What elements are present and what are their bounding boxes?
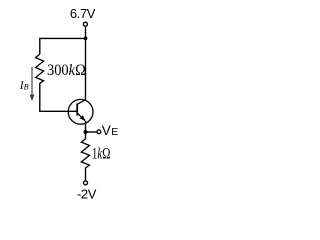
svg-text:6.7V: 6.7V	[70, 6, 96, 21]
svg-text:-2V: -2V	[77, 187, 97, 202]
svg-text:1kΩ: 1kΩ	[92, 146, 111, 163]
wire emitter vertical	[85, 121, 87, 139]
transistor collector diagonal	[77, 100, 85, 105]
svg-text:300kΩ: 300kΩ	[47, 62, 86, 79]
node junction dot top	[84, 37, 88, 41]
wire top horizontal	[40, 37, 86, 39]
wire left branch upper	[39, 38, 41, 55]
terminal -2V	[84, 181, 88, 185]
wire VE node to terminal	[86, 131, 97, 133]
transistor Q1 body circle	[68, 99, 93, 124]
resistor R1 300k zigzag	[36, 54, 44, 83]
wire terminal to top junction	[85, 27, 87, 39]
wire base lead	[39, 110, 77, 112]
svg-text:E: E	[111, 126, 118, 138]
resistor R2 1k zigzag	[81, 139, 89, 168]
wire emitter resistor to bottom terminal	[85, 168, 87, 181]
svg-text:B: B	[24, 83, 29, 92]
svg-text:V: V	[102, 123, 111, 138]
transistor Q1 base bar	[76, 104, 78, 116]
arrow IB direction	[31, 67, 33, 96]
wire left branch lower	[39, 83, 41, 111]
terminal 6.7V	[83, 22, 87, 26]
wire collector vertical	[85, 38, 87, 100]
transistor emitter diagonal with arrow	[77, 113, 85, 120]
node junction dot VE	[84, 130, 88, 134]
terminal VE	[97, 130, 101, 134]
